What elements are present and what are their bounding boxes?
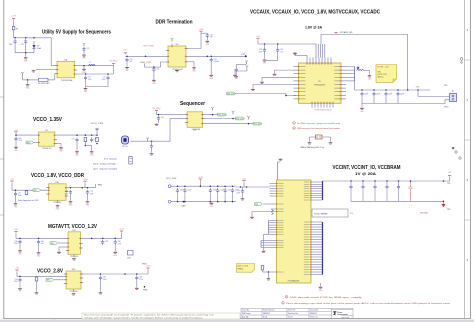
- ground under net tie: [26, 84, 30, 90]
- junction 1.8 in a: [15, 189, 17, 191]
- pushbutton S1: [129, 157, 132, 165]
- ground under R30: [267, 278, 271, 281]
- junction vccint bank 1: [350, 180, 352, 182]
- svg-text:C79: C79: [90, 191, 93, 193]
- power flag vccint input: [242, 178, 246, 182]
- sheet zone letters right: [467, 28, 469, 262]
- ground under U12: [72, 293, 76, 296]
- wire R30 to pin: [263, 271, 268, 273]
- sheet zone ticks left: [0, 97, 4, 215]
- wire bank18 cap 4 bottom: [217, 193, 219, 202]
- svg-text:U9: U9: [45, 130, 47, 132]
- svg-text:Instruments: Instruments: [337, 313, 348, 316]
- svg-text:PG_1V0: PG_1V0: [236, 118, 244, 120]
- svg-text:22uF: 22uF: [400, 94, 404, 96]
- junction 1.35 d: [96, 134, 98, 136]
- wire vccaux input rail: [258, 43, 317, 45]
- wire C61 to gnd: [151, 149, 153, 153]
- capacitor C69: [14, 39, 17, 44]
- net label EN 2.8V: [46, 278, 54, 281]
- power flag VCCO_1.8V out: [82, 179, 88, 183]
- junction vccaux in b: [277, 43, 279, 45]
- wire aux bank gnd drop: [361, 104, 363, 108]
- svg-text:5V_SEQ: 5V_SEQ: [153, 108, 161, 110]
- capacitor bank18 C62: [183, 188, 186, 193]
- junction bank flag: [200, 185, 202, 187]
- wire C42 to gnd: [206, 38, 208, 40]
- wire EN into regulator: [286, 94, 296, 96]
- svg-text:C69: C69: [9, 44, 12, 46]
- junction 2.8 out a: [100, 273, 102, 275]
- svg-text:MGTAVTT, VCCO_1.2V: MGTAVTT, VCCO_1.2V: [48, 224, 97, 230]
- junction seq out3: [248, 123, 250, 125]
- wire 12V input drop: [13, 21, 15, 27]
- junction bank top 2: [184, 185, 186, 187]
- inductor L1 on 5V rail: [89, 65, 96, 66]
- regulator U5 right pins: [341, 67, 346, 99]
- svg-text:C85: C85: [103, 277, 106, 279]
- wire U5 topleft pin to gnd: [295, 52, 307, 58]
- svg-text:TP10: TP10: [444, 107, 448, 109]
- ground catch diode: [82, 68, 87, 74]
- wire C52 lead: [264, 44, 266, 48]
- capacitor bank18 C65: [224, 188, 227, 193]
- svg-text:VCCO_1.8V, VCCO_DDR: VCCO_1.8V, VCCO_DDR: [31, 173, 84, 179]
- wire U5 right rows bundle: [346, 70, 355, 81]
- wire U6 pin gnd stub: [188, 61, 194, 63]
- power flag bank 1.8V: [198, 177, 204, 181]
- ground under C42: [206, 40, 210, 46]
- ground JP1 left: [308, 142, 312, 145]
- regulator U5 top pins: [307, 58, 331, 64]
- junction seq route: [151, 140, 153, 142]
- wire vccint bank cap 1 lead: [350, 181, 352, 185]
- svg-text:1uF: 1uF: [41, 243, 44, 245]
- wire rail to gnd: [25, 53, 27, 57]
- ground under C44: [234, 76, 238, 79]
- net label EN 1.35V: [26, 141, 34, 144]
- red note callout 2: [293, 127, 341, 130]
- regulator U8: [55, 61, 77, 78]
- ground under C79: [86, 201, 90, 207]
- wire EN net to VCCAUX: [235, 93, 287, 95]
- test point TP 2.8V: [143, 286, 147, 292]
- capacitor bank18 C66: [231, 188, 234, 193]
- junction vccaux in a: [264, 43, 266, 45]
- svg-text:22uF: 22uF: [180, 189, 184, 191]
- ground left pins U5 b: [273, 73, 277, 76]
- junction vccint bank 6: [410, 180, 412, 182]
- wire VREF into pin: [161, 62, 166, 67]
- svg-text:+1.2V: +1.2V: [119, 229, 125, 231]
- svg-text:1uF: 1uF: [210, 37, 213, 39]
- svg-text:VOUT_SENSE: VOUT_SENSE: [314, 213, 328, 215]
- regulator U5 interior pin names: [300, 67, 339, 99]
- wire DDR output bus: [188, 55, 246, 57]
- wire U9 gnd drop: [60, 144, 62, 147]
- svg-text:C74: C74: [86, 48, 89, 50]
- wire aux bank cap 1 to rail: [361, 97, 363, 104]
- ground left pins U5 c: [260, 81, 264, 84]
- sheet bottom tick: [53, 319, 55, 322]
- svg-text:This Device was built to evalu: This Device was built to evaluate TI pow…: [84, 314, 215, 317]
- junction DDR in b: [145, 56, 147, 58]
- test point ddr end tie: [246, 65, 249, 69]
- wire U6 vin up right: [188, 33, 207, 48]
- wire flag drop 1.8 out: [84, 183, 86, 188]
- junction 1.8 out a: [70, 187, 72, 189]
- wire seq route to cap: [151, 141, 153, 144]
- inductor L5: [357, 68, 364, 71]
- svg-text:L5: L5: [357, 68, 359, 70]
- test point 5V_SEQ decoupling: [83, 43, 86, 47]
- wire flag drop 1.2 out: [117, 233, 122, 238]
- regulator U10 1.8V: [46, 184, 68, 201]
- svg-text:VCCO_2.8V: VCCO_2.8V: [37, 269, 63, 275]
- svg-text:DNI: decade stack PCB for SNS: DNI: decade stack PCB for SNS spec suppl…: [290, 296, 362, 299]
- wire node to gnd right: [369, 71, 371, 75]
- wire U6 gnd drop: [193, 62, 195, 67]
- power flag 5V vccaux input: [256, 36, 260, 40]
- svg-text:C40: C40: [129, 59, 132, 61]
- tvs diode D9: [32, 41, 35, 48]
- wire U13 gnd drop: [320, 283, 322, 286]
- resistor R20 fb upper: [84, 138, 87, 142]
- ground flag top of vccint: [279, 158, 283, 161]
- wire C74 to gnd: [83, 52, 85, 54]
- connector J6 sequencer: [122, 136, 129, 148]
- junction out cap b: [107, 73, 109, 75]
- wire U8 switch node: [77, 65, 114, 67]
- resistor R22 en pull: [25, 191, 28, 195]
- svg-text:22uF: 22uF: [14, 243, 18, 245]
- capacitor C44 far right: [235, 68, 238, 73]
- mounting hole right top: [460, 58, 463, 64]
- sheet border right outer: [470, 0, 472, 319]
- junction fb node: [85, 145, 87, 147]
- regulator U5 QFP body: [299, 63, 342, 103]
- junction bottom rail: [25, 52, 27, 54]
- svg-text:VREF_DDR: VREF_DDR: [140, 62, 151, 64]
- svg-text:F1: F1: [16, 29, 18, 31]
- power flag 1.8V at C42: [198, 29, 204, 33]
- wire VREF horizontal: [145, 66, 161, 68]
- svg-text:C84: C84: [15, 279, 18, 281]
- junction 1.2 out b: [102, 238, 104, 240]
- svg-text:22uF: 22uF: [236, 192, 240, 194]
- svg-text:1.8V: 1.8V: [416, 87, 421, 89]
- wire into U8 VIN: [51, 65, 55, 67]
- wire vccint output bus: [323, 180, 444, 182]
- sheet border left: [3, 0, 5, 319]
- regulator U11 1.2V: [66, 232, 83, 255]
- svg-text:22uF: 22uF: [258, 51, 262, 53]
- vccint left bundle collector: [268, 221, 270, 235]
- svg-text:22uF: 22uF: [187, 189, 191, 191]
- svg-text:+2.8V: +2.8V: [145, 266, 151, 268]
- svg-text:U10: U10: [55, 182, 58, 184]
- capacitor C78 1.8 out: [69, 190, 72, 195]
- ground vccint en: [250, 216, 254, 219]
- junction bank top 5: [224, 185, 226, 187]
- capacitor C41 vref: [152, 67, 155, 72]
- svg-text:22uF: 22uF: [228, 189, 232, 191]
- svg-text:DDR Termination: DDR Termination: [156, 20, 193, 26]
- power module U13 body: [277, 180, 312, 283]
- capacitor C75 1.35V: [75, 138, 78, 143]
- ground under C82: [113, 251, 117, 257]
- svg-text:C70: C70: [21, 44, 24, 46]
- termination regulator U6: [166, 44, 188, 67]
- capacitor vccint bank C94: [385, 185, 388, 190]
- right edge test points: [452, 148, 461, 159]
- wire R30 top lead: [262, 270, 264, 272]
- U13 right upper bundle collector: [322, 181, 324, 200]
- wire C53 lead: [277, 44, 279, 48]
- wire seq out1: [205, 114, 218, 116]
- svg-text:PMP Design: PMP Design: [242, 313, 251, 315]
- ground 1.35 input: [14, 146, 18, 152]
- capacitor C74b 1.35 in: [14, 137, 17, 142]
- wire vccint bank cap 3 gnd: [374, 189, 376, 201]
- wire C90 lead: [242, 187, 244, 189]
- wire seq supply drop: [156, 113, 158, 115]
- svg-text:5V_SEQ: 5V_SEQ: [110, 61, 118, 63]
- ground under C43: [209, 74, 213, 80]
- wire aux cap bank bottom rail: [362, 103, 418, 105]
- wire vccint bank cap 1 gnd: [350, 189, 352, 201]
- power flag 1.8V section input: [10, 179, 14, 183]
- svg-text:22uF: 22uF: [376, 94, 380, 96]
- wire to load option: [121, 237, 123, 239]
- wire JP1 right leg: [322, 137, 331, 142]
- power flag +12V input: [11, 16, 16, 21]
- junction bank bottom 1: [177, 201, 179, 203]
- capacitor C90 vccint in: [241, 189, 244, 194]
- wire junction to gnd: [27, 80, 29, 84]
- wire seq supply to pin: [157, 114, 185, 116]
- wire 2.8 input drop: [16, 272, 18, 276]
- junction 1.8 out b: [81, 187, 83, 189]
- svg-text:C53: C53: [280, 49, 283, 51]
- svg-text:Sets Sequence to 3.3V: Sets Sequence to 3.3V: [18, 199, 39, 202]
- ground under C40: [125, 66, 129, 72]
- ground under input rail: [24, 57, 28, 63]
- wire flag drop 1.35: [96, 131, 98, 135]
- wire aux bank cap 3 to rail: [385, 97, 387, 104]
- net label EN 1.2V: [50, 242, 58, 245]
- svg-text:22uF: 22uF: [220, 189, 224, 191]
- wire L5 to node: [364, 70, 370, 72]
- capacitor C80 1.2 in: [18, 240, 21, 245]
- power flag MGTAVTT out: [119, 229, 125, 233]
- wire seq en stub: [170, 118, 185, 120]
- junction DDR out a: [207, 56, 209, 58]
- wire C44 to gnd: [235, 72, 237, 75]
- junction seq supply: [158, 114, 160, 116]
- resistor R21 bottom dot: [96, 143, 98, 145]
- wire U5 left pin row to gnd c: [262, 77, 294, 81]
- junction bank bottom 5: [224, 201, 226, 203]
- wire C43 to gnd: [210, 63, 212, 74]
- wire 1.35V input rail: [16, 134, 36, 136]
- capacitor aux bank C55: [372, 92, 375, 97]
- test point 5V tap: [21, 72, 24, 76]
- wire cap C69 to rail: [14, 44, 16, 53]
- ground under C77: [14, 203, 18, 209]
- wire 1.8 input drop: [11, 183, 13, 190]
- ground under C61: [150, 153, 154, 156]
- capacitor vccint bank C93: [373, 185, 376, 190]
- junction bank top 6: [232, 185, 234, 187]
- junction vccint bottom bus end: [443, 201, 445, 203]
- svg-text:SJ-3523-SMT: SJ-3523-SMT: [38, 83, 51, 85]
- sequencer U7: [185, 112, 205, 128]
- ground under C80: [18, 250, 22, 256]
- junction aux bank out: [407, 89, 409, 91]
- wire vccint bank cap 5 gnd: [398, 189, 400, 201]
- ground below U6 pad: [175, 69, 179, 72]
- svg-text:TPS51200DR: TPS51200DR: [172, 69, 183, 71]
- wire tp tie: [246, 69, 248, 71]
- wire U11 gnd stub left: [58, 247, 60, 251]
- resistor R30 addr: [261, 266, 264, 271]
- svg-text:47uF: 47uF: [102, 79, 106, 81]
- capacitor vccint bank C91: [349, 185, 352, 190]
- svg-text:TP28: TP28: [143, 290, 147, 292]
- capacitor vccint bank C95: [397, 185, 400, 190]
- junction DDR out b: [210, 56, 212, 58]
- junction bank top 4: [217, 185, 219, 187]
- junction bank top 1: [177, 185, 179, 187]
- wire tp tie to gnd: [235, 71, 247, 74]
- svg-text:C52: C52: [259, 49, 262, 51]
- sheet border bottom: [4, 318, 471, 320]
- wire C52 to gnd: [264, 53, 266, 59]
- wire seq pgood route down: [131, 119, 171, 142]
- junction 1.35 b: [85, 134, 87, 136]
- power module U13 left pin stubs: [261, 184, 277, 273]
- junction 1.2 out c: [114, 238, 116, 240]
- svg-text:TP9: TP9: [444, 85, 447, 87]
- svg-text:22uF: 22uF: [213, 189, 217, 191]
- junction input rail c: [33, 37, 35, 39]
- capacitor C40 ddr in: [125, 58, 128, 63]
- test point seq route: [146, 138, 149, 142]
- svg-text:+12V: +12V: [11, 16, 16, 18]
- ground under C90: [241, 198, 245, 201]
- junction vccint bank 2: [362, 180, 364, 182]
- svg-text:C83: C83: [105, 241, 108, 243]
- svg-text:22uF: 22uF: [18, 140, 22, 142]
- junction bank bottom 6: [232, 201, 234, 203]
- wire gnd to U8 EN: [36, 68, 55, 70]
- svg-text:C42: C42: [210, 34, 213, 36]
- wire input bottom rail: [15, 52, 34, 54]
- note sticky vccint: [237, 264, 255, 273]
- svg-text:NOTE : LDO: NOTE : LDO: [378, 67, 390, 69]
- junction seq out2: [232, 118, 234, 120]
- wire top stub tee: [278, 161, 281, 163]
- wire flag drop 2.8 out: [147, 270, 149, 274]
- ground vccint bundle: [262, 250, 266, 253]
- svg-text:LM3880MF: LM3880MF: [192, 129, 201, 131]
- resistor R24 2.8 en: [35, 277, 38, 281]
- wire seq out3: [205, 123, 254, 125]
- wire aux bank cap 4 to rail: [397, 97, 399, 104]
- svg-text:1000pF: 1000pF: [214, 61, 219, 63]
- capacitor C42 rotate fix: [203, 32, 207, 34]
- vccint lower bundle collector: [260, 241, 262, 248]
- svg-text:C81: C81: [41, 241, 44, 243]
- net label EN_1V8: [227, 92, 236, 95]
- junction 1.35 in: [15, 134, 17, 136]
- junction seq out1: [212, 114, 214, 116]
- ground under U10: [56, 205, 60, 211]
- wire bank18 cap 2 bottom: [184, 193, 186, 202]
- svg-text:C90: C90: [237, 190, 240, 192]
- wire vccint bank cap 4 lead: [386, 181, 388, 185]
- feedback node wire: [85, 145, 91, 147]
- capacitor aux bank C54: [360, 92, 363, 97]
- wire vccint bank cap 3 lead: [374, 181, 376, 185]
- wire vccint vin top stub: [277, 162, 279, 180]
- wire C85 to gnd: [100, 280, 102, 291]
- wire cap C70 to rail: [25, 44, 27, 53]
- svg-text:C86: C86: [139, 277, 142, 279]
- svg-text:C75: C75: [72, 139, 75, 141]
- wire C78 to gnd: [70, 195, 72, 201]
- wire EN12 into U11: [58, 242, 66, 244]
- wire 1.35 in cap to gnd: [15, 142, 17, 147]
- junction 2.8 out b: [124, 273, 126, 275]
- svg-text:47uF: 47uF: [118, 243, 122, 245]
- ground under C85: [99, 292, 103, 295]
- sheet zone ticks right: [465, 60, 471, 220]
- wire bank bottom rail: [173, 201, 236, 203]
- wire U8 feedback rail: [77, 73, 114, 75]
- power module U13 right pins upper: [311, 182, 323, 200]
- net label EN 1.8V: [33, 189, 41, 192]
- U5 left pin junction marks: [285, 95, 287, 97]
- capacitor C60 seq: [157, 116, 160, 121]
- remote sense box: [312, 209, 348, 217]
- wire bundle U5 top to rail: [316, 44, 325, 58]
- junction input rail b: [25, 37, 27, 39]
- junction vccint bank 4: [386, 180, 388, 182]
- note sticky aux: [376, 65, 397, 83]
- svg-text:PTD08A020W: PTD08A020W: [288, 280, 300, 283]
- svg-text:22uF: 22uF: [388, 94, 392, 96]
- wire 2.8V output rail: [81, 273, 148, 275]
- junction vccint bank 5: [398, 180, 400, 182]
- junction VREF: [153, 66, 155, 68]
- offpage connector bank top: [168, 185, 173, 188]
- wire bank18 cap 6 bottom: [232, 193, 234, 202]
- svg-text:Utility 5V Supply for Sequence: Utility 5V Supply for Sequencers: [42, 29, 111, 35]
- svg-text:U11: U11: [72, 230, 75, 232]
- red note callout 1: [293, 122, 340, 125]
- wire sw gnd lead: [83, 66, 85, 68]
- wire C53 bottom join: [265, 53, 278, 60]
- capacitor vccint bank C92: [361, 185, 364, 190]
- junction DDR in a: [126, 56, 128, 58]
- wire diode to rail: [33, 48, 35, 53]
- wire U5 left pin row to gnd a: [253, 85, 294, 89]
- ground left below U11: [57, 251, 61, 254]
- wire 1.35V output rail: [57, 134, 97, 136]
- test point bias: [245, 60, 248, 64]
